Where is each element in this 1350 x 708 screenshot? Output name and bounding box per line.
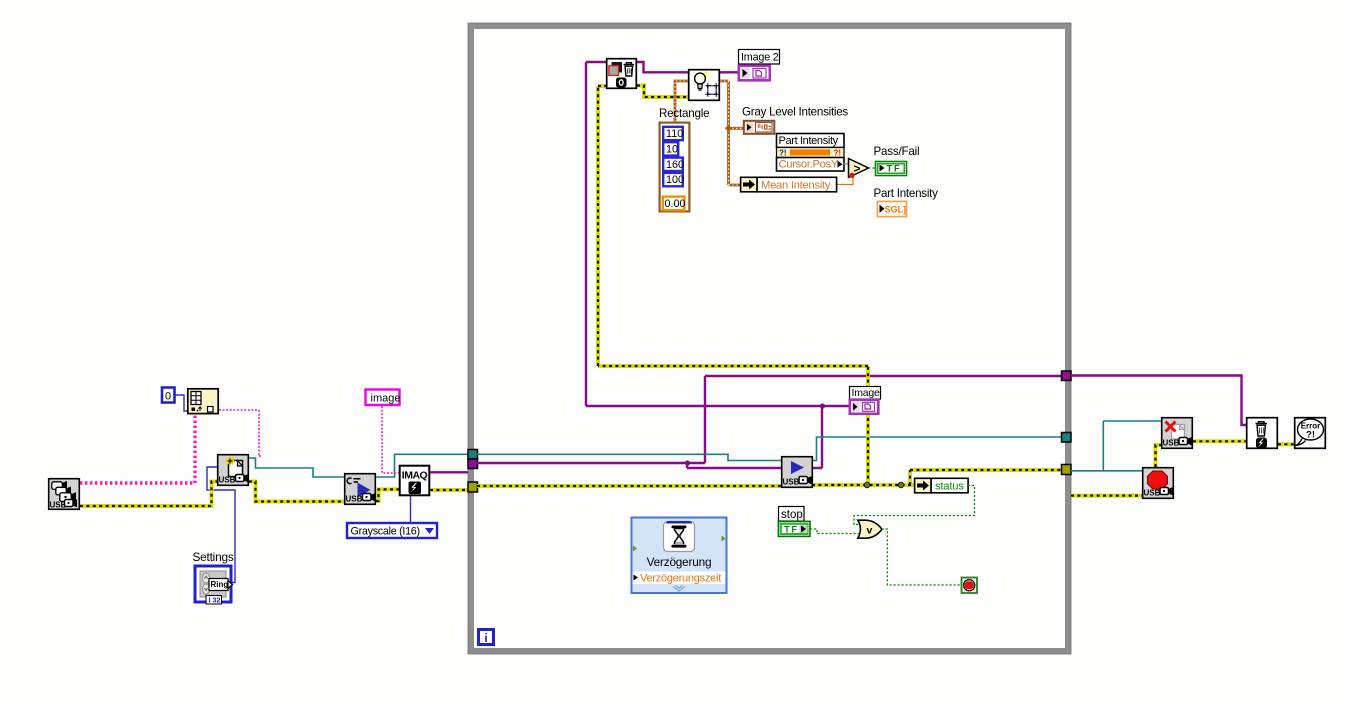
svg-text:Gray Level Intensities: Gray Level Intensities [742,106,848,119]
wire session teal open to configure [249,458,344,477]
node IMAQdx Enumerate Cameras [49,479,80,510]
constant 0 [162,388,175,403]
wire pass/fail boolean green [869,167,876,169]
svg-text:SGL]: SGL] [885,205,907,215]
svg-text:?!: ?! [779,149,787,158]
label Part Intensity [874,187,939,200]
wire image type blue [410,496,412,522]
wire image purple main loop run [477,62,1061,468]
wire error in loop [477,86,1061,488]
svg-text:Image 2: Image 2 [741,52,779,64]
indicator Image 2 terminal [739,66,770,81]
svg-text:10: 10 [666,144,678,156]
label Image [850,387,881,400]
svg-text:0: 0 [165,391,171,403]
node Simple Error Handler [1295,418,1326,449]
label Settings [193,550,234,564]
wire error configure to IMAQ create [376,489,399,501]
wire error close to dispose [1193,439,1246,443]
wire camera name string to open [219,410,262,456]
node IMAQ Create [400,466,430,496]
tunnel image purple left [468,459,478,469]
loop condition terminal [962,578,978,594]
svg-text:i: i [484,631,487,645]
wire error open to configure [249,482,344,502]
svg-text:TF: TF [784,525,798,536]
svg-text:image: image [371,393,401,405]
svg-text:Verzögerungszeit: Verzögerungszeit [640,572,721,584]
node IMAQdx stop acquisition [1143,468,1174,499]
wire session teal in loop [477,437,1061,461]
wire error dispose to error handler [1278,442,1294,446]
tunnel session teal left [468,450,478,460]
label Rectangle [659,107,709,120]
svg-text:status: status [935,481,964,493]
svg-text:>: > [853,162,860,176]
svg-text:v: v [867,525,873,537]
wire mean intensity orange [837,176,853,185]
svg-text:USB: USB [1144,489,1161,498]
svg-text:100: 100 [666,174,684,186]
wire rectangle rope to bulb [675,81,743,185]
unbundle status [915,478,969,493]
svg-text:USB: USB [783,478,800,487]
svg-text:stop: stop [781,509,803,521]
svg-text:Part Intensity: Part Intensity [874,187,939,200]
svg-text:160: 160 [666,159,684,171]
wire session teal right outside [1071,421,1161,471]
indicator Pass/Fail TF [875,161,906,175]
express VI Verzoegerung time delay [632,518,727,594]
node IMAQdx Open Camera [218,455,249,486]
svg-text:Verzögerung: Verzögerung [647,555,712,569]
svg-text:USB: USB [346,495,363,504]
svg-text:Grayscale (I16): Grayscale (I16) [351,525,420,537]
svg-text:110: 110 [666,128,683,140]
wire error stop acquisition to close [1156,445,1162,467]
indicator Image terminal [850,400,879,414]
tunnel session teal right [1062,433,1072,443]
cluster constant Rectangle [660,123,690,212]
svg-text:0.00: 0.00 [665,198,686,210]
svg-text:Ring: Ring [211,580,229,589]
unbundle Mean Intensity [741,177,837,192]
wire error tunnel to stop acquisition [1071,494,1142,498]
wire error IMAQ create to loop tunnel [430,488,468,492]
label stop [779,507,805,522]
svg-text:Part Intensity: Part Intensity [779,135,839,147]
node IMAQdx Configure Grab [345,474,376,505]
label Pass/Fail [874,145,920,158]
node IMAQ Dispose in loop [607,59,637,89]
indicator Gray Level Intensities terminal [744,121,775,134]
wire image purple to dispose right [1071,376,1246,426]
indicator Part Intensity SGL [877,201,906,216]
svg-text:I 32: I 32 [209,595,221,604]
wire camera-names pink array [80,414,195,483]
svg-text:?!: ?! [1306,430,1315,441]
node IMAQdx Close Camera [1162,418,1193,449]
tunnel image purple right [1062,371,1072,381]
svg-text:Pass/Fail: Pass/Fail [874,145,920,158]
wire image name pink [382,406,399,473]
svg-text:Mean Intensity: Mean Intensity [761,179,831,191]
node IMAQ Dispose final [1247,418,1278,449]
wire session teal configure to loop tunnel [376,454,468,477]
wire session open blue to ring [207,467,235,583]
tunnel error left [468,482,478,492]
property node Part Intensity [777,134,845,172]
svg-text:Rectangle: Rectangle [659,107,709,120]
wire image purple to loop tunnel [430,471,468,473]
wire status boolean to or [854,486,975,525]
function Or [858,520,882,538]
svg-text:Settings: Settings [193,550,234,564]
svg-text:Image: Image [852,387,881,399]
constant image string [366,390,401,406]
node IMAQ Light Meter bulb [689,70,720,101]
tunnel error right [1062,465,1072,475]
function Greater? compare [849,159,869,178]
wire or to loop condition [882,529,962,585]
while loop border [468,23,1071,654]
label Gray Level Intensities [742,106,848,119]
control Settings ring [195,566,233,604]
node Index Array [188,389,218,414]
wire stop boolean to or [810,529,860,534]
svg-text:IMAQ: IMAQ [402,470,428,482]
loop iteration terminal i [479,630,494,646]
wire property to compare [843,163,849,165]
wire error enumerate to open [80,482,218,507]
svg-text:USB: USB [219,476,236,485]
svg-text:USB: USB [1163,439,1180,448]
node IMAQdx Grab [782,457,813,488]
svg-text:?!: ?! [834,149,842,158]
svg-text:TF: TF [887,164,902,175]
wire index 0 blue [174,395,188,411]
label Image 2 [739,50,780,65]
constant Grayscale (I16) enum [347,523,437,538]
svg-text:Cursor.PosY: Cursor.PosY [779,159,839,171]
control stop TF [778,521,810,536]
